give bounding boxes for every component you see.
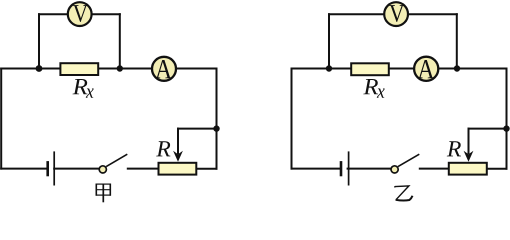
wire: voltmeter loop right vertical bbox=[119, 14, 121, 68]
wire: rheostat right to right vertical bbox=[488, 168, 507, 170]
wire: voltmeter loop top horizontal bbox=[329, 13, 457, 15]
resistor Rx (left) bbox=[60, 63, 98, 75]
switch (right): pivot circle bbox=[391, 166, 398, 173]
node right of ammeter (right circuit) bbox=[454, 65, 460, 71]
wire: bottom left segment to battery bbox=[1, 168, 46, 170]
node left of Rx bbox=[36, 65, 43, 72]
wire: wiper branch horizontal bbox=[178, 128, 217, 130]
arrowhead of rheostat wiper bbox=[173, 151, 183, 162]
node left of Rx (right circuit) bbox=[326, 65, 332, 71]
label R (right rheostat) bbox=[447, 141, 461, 156]
wire: voltmeter loop top horizontal bbox=[39, 13, 120, 15]
wire: top horizontal of main loop bbox=[1, 68, 216, 70]
rheostat R (right) bbox=[449, 163, 487, 175]
arrowhead of rheostat wiper (right) bbox=[464, 151, 474, 162]
battery (left): long thin positive plate bbox=[53, 151, 55, 185]
battery (right): long thin positive plate bbox=[348, 151, 350, 185]
switch (left): pivot circle bbox=[99, 166, 106, 173]
wire: voltmeter loop left vertical bbox=[38, 14, 40, 68]
wire: voltmeter loop right vertical bbox=[456, 14, 458, 68]
voltmeter V (right) bbox=[384, 2, 408, 26]
wire: wiper branch horizontal bbox=[469, 128, 507, 130]
wire: left vertical of main loop bbox=[291, 69, 293, 169]
resistor Rx (right) bbox=[351, 63, 389, 75]
wire: bottom left segment to battery bbox=[292, 168, 340, 170]
ammeter A (left) bbox=[152, 57, 176, 81]
wire: battery to switch bbox=[54, 168, 99, 170]
wire: rheostat right to right vertical bbox=[197, 168, 216, 170]
battery (left): short thick negative plate bbox=[46, 161, 49, 176]
wire: wiper arrow shaft bbox=[468, 129, 470, 153]
switch (right): lever bbox=[398, 154, 419, 166]
label jia (Chinese char drawn as strokes) bbox=[96, 184, 111, 203]
label Rx (left) bbox=[73, 79, 88, 94]
switch (left): lever bbox=[106, 154, 127, 166]
ammeter A (right) bbox=[414, 57, 438, 81]
label yi (Chinese char drawn as strokes) bbox=[394, 186, 412, 201]
wire: top horizontal of main loop bbox=[292, 68, 507, 70]
label Rx (right) bbox=[363, 79, 378, 94]
wire: left vertical of main loop bbox=[0, 69, 2, 169]
node right of Rx bbox=[117, 65, 123, 71]
battery (right): short thick negative plate bbox=[340, 161, 343, 176]
label R (left rheostat) bbox=[156, 141, 170, 156]
wire: switch stub to rheostat bbox=[420, 168, 448, 170]
rheostat R (left) bbox=[159, 163, 197, 175]
node at wiper junction (left circuit) bbox=[213, 125, 219, 131]
wire: switch stub to rheostat bbox=[128, 168, 158, 170]
node at wiper junction (right circuit) bbox=[503, 125, 509, 131]
wire: wiper arrow shaft bbox=[177, 129, 179, 153]
wire: right vertical of main loop bbox=[506, 69, 508, 169]
voltmeter V (left) bbox=[68, 2, 92, 26]
wire: right vertical of main loop bbox=[216, 69, 218, 169]
wire: battery to switch bbox=[348, 168, 391, 170]
wire: voltmeter loop left vertical bbox=[328, 14, 330, 68]
